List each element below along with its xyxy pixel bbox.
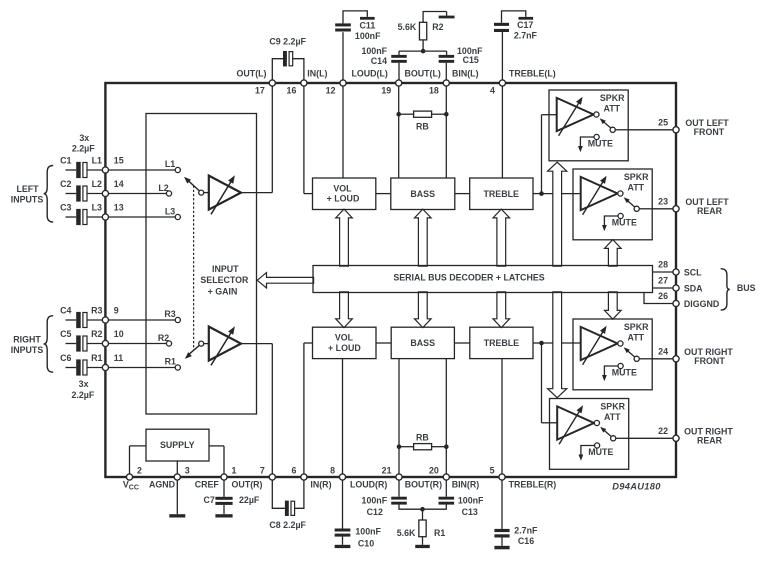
svg-text:25: 25 [658, 118, 668, 128]
svg-text:3x: 3x [79, 379, 89, 389]
svg-text:TREBLE: TREBLE [484, 189, 519, 199]
svg-text:BOUT(R): BOUT(R) [405, 479, 442, 489]
svg-text:ATT: ATT [604, 412, 621, 422]
svg-text:5.6K: 5.6K [398, 22, 417, 32]
svg-text:ATT: ATT [604, 103, 621, 113]
svg-text:MUTE: MUTE [612, 218, 637, 228]
svg-text:20: 20 [429, 465, 439, 475]
svg-text:RIGHT: RIGHT [13, 334, 41, 344]
svg-text:BIN(R): BIN(R) [452, 479, 480, 489]
svg-text:22: 22 [658, 426, 668, 436]
svg-text:17: 17 [255, 85, 265, 95]
svg-text:1: 1 [232, 465, 237, 475]
svg-text:R1: R1 [165, 356, 176, 366]
svg-text:2: 2 [137, 465, 142, 475]
svg-text:5.6K: 5.6K [397, 528, 416, 538]
svg-text:SDA: SDA [684, 283, 703, 293]
svg-text:2.7nF: 2.7nF [514, 526, 538, 536]
svg-text:C15: C15 [463, 55, 479, 65]
svg-text:IN(L): IN(L) [307, 68, 327, 78]
svg-text:C11: C11 [360, 20, 376, 30]
svg-text:R1: R1 [434, 528, 445, 538]
svg-text:BASS: BASS [410, 338, 435, 348]
svg-text:R2: R2 [158, 333, 169, 343]
svg-text:4: 4 [490, 85, 495, 95]
svg-text:IN(R): IN(R) [310, 479, 331, 489]
svg-text:R1: R1 [91, 353, 102, 363]
svg-text:L2: L2 [158, 183, 168, 193]
svg-text:13: 13 [114, 202, 124, 212]
svg-text:MUTE: MUTE [588, 447, 613, 457]
svg-text:L1: L1 [92, 155, 102, 165]
svg-text:SCL: SCL [684, 267, 702, 277]
svg-text:R2: R2 [432, 22, 443, 32]
svg-text:5: 5 [490, 465, 495, 475]
svg-text:BUS: BUS [737, 283, 756, 293]
svg-text:14: 14 [114, 179, 124, 189]
svg-text:27: 27 [658, 276, 668, 286]
svg-text:2.2µF: 2.2µF [72, 390, 95, 400]
svg-text:CREF: CREF [195, 479, 220, 489]
svg-text:15: 15 [114, 155, 124, 165]
svg-text:C9 2.2µF: C9 2.2µF [269, 37, 306, 47]
svg-text:18: 18 [429, 85, 439, 95]
svg-text:2.7nF: 2.7nF [514, 31, 538, 41]
svg-text:12: 12 [326, 85, 336, 95]
svg-text:3x: 3x [79, 133, 89, 143]
svg-text:C8 2.2µF: C8 2.2µF [269, 520, 306, 530]
svg-text:C3: C3 [60, 202, 71, 212]
svg-text:22µF: 22µF [239, 495, 260, 505]
svg-text:LEFT: LEFT [16, 184, 39, 194]
svg-text:100nF: 100nF [458, 496, 484, 506]
svg-text:ATT: ATT [628, 182, 645, 192]
svg-text:C12: C12 [367, 507, 383, 517]
svg-text:VOL: VOL [335, 333, 354, 343]
svg-text:D94AU180: D94AU180 [612, 481, 661, 491]
svg-text:SELECTOR: SELECTOR [200, 275, 249, 285]
svg-text:28: 28 [658, 260, 668, 270]
svg-text:100nF: 100nF [355, 31, 381, 41]
svg-text:SPKR: SPKR [624, 172, 649, 182]
svg-text:100nF: 100nF [362, 496, 388, 506]
svg-text:C13: C13 [462, 507, 478, 517]
svg-text:L3: L3 [92, 202, 102, 212]
svg-text:R3: R3 [91, 305, 102, 315]
svg-text:AGND: AGND [149, 479, 176, 489]
svg-text:LOUD(L): LOUD(L) [352, 68, 388, 78]
svg-text:DIGGND: DIGGND [684, 299, 720, 309]
svg-text:REAR: REAR [697, 206, 723, 216]
svg-text:TREBLE(L): TREBLE(L) [509, 68, 556, 78]
svg-text:C10: C10 [358, 538, 374, 548]
svg-text:23: 23 [658, 197, 668, 207]
svg-text:FRONT: FRONT [694, 356, 725, 366]
svg-text:SPKR: SPKR [624, 322, 649, 332]
svg-text:2.2µF: 2.2µF [72, 144, 95, 154]
svg-text:L1: L1 [165, 159, 175, 169]
svg-text:BOUT(L): BOUT(L) [405, 68, 441, 78]
svg-text:OUT(R): OUT(R) [232, 479, 263, 489]
svg-text:TREBLE(R): TREBLE(R) [509, 479, 557, 489]
svg-text:INPUTS: INPUTS [11, 345, 44, 355]
svg-text:C5: C5 [60, 329, 71, 339]
svg-text:L2: L2 [92, 179, 102, 189]
svg-text:11: 11 [114, 353, 123, 363]
svg-text:3: 3 [185, 465, 190, 475]
svg-text:C7: C7 [203, 495, 214, 505]
svg-text:SPKR: SPKR [600, 93, 625, 103]
svg-text:TREBLE: TREBLE [484, 338, 519, 348]
svg-text:OUT(L): OUT(L) [237, 68, 267, 78]
svg-text:C1: C1 [60, 155, 71, 165]
svg-text:ATT: ATT [628, 332, 645, 342]
svg-text:SUPPLY: SUPPLY [160, 440, 195, 450]
svg-text:C2: C2 [60, 179, 71, 189]
svg-text:C6: C6 [60, 353, 71, 363]
svg-text:+ GAIN: + GAIN [208, 286, 238, 296]
svg-text:C4: C4 [60, 305, 71, 315]
svg-text:VOL: VOL [333, 183, 352, 193]
svg-text:9: 9 [114, 305, 119, 315]
svg-text:6: 6 [291, 465, 296, 475]
svg-text:26: 26 [658, 291, 668, 301]
svg-text:REAR: REAR [697, 436, 723, 446]
svg-text:BASS: BASS [410, 189, 435, 199]
svg-text:INPUTS: INPUTS [11, 195, 44, 205]
svg-text:MUTE: MUTE [588, 139, 613, 149]
svg-text:R2: R2 [91, 329, 102, 339]
svg-text:10: 10 [114, 329, 124, 339]
svg-text:100nF: 100nF [361, 46, 387, 56]
svg-text:7: 7 [260, 465, 265, 475]
svg-text:24: 24 [658, 347, 668, 357]
svg-text:R3: R3 [164, 309, 175, 319]
svg-text:MUTE: MUTE [612, 368, 637, 378]
svg-text:16: 16 [287, 85, 297, 95]
svg-text:SPKR: SPKR [600, 401, 625, 411]
svg-text:BIN(L): BIN(L) [452, 68, 479, 78]
svg-text:INPUT: INPUT [212, 264, 239, 274]
svg-text:RB: RB [416, 121, 429, 131]
svg-text:100nF: 100nF [355, 526, 381, 536]
svg-text:C14: C14 [371, 56, 387, 66]
svg-text:L3: L3 [165, 207, 175, 217]
svg-text:C16: C16 [518, 536, 534, 546]
svg-text:SERIAL BUS DECODER + LATCHES: SERIAL BUS DECODER + LATCHES [393, 273, 544, 283]
svg-text:+ LOUD: + LOUD [327, 194, 360, 204]
svg-text:8: 8 [330, 465, 335, 475]
svg-text:RB: RB [416, 433, 429, 443]
svg-text:FRONT: FRONT [694, 127, 725, 137]
svg-text:C17: C17 [517, 20, 533, 30]
svg-text:21: 21 [382, 465, 392, 475]
svg-text:+ LOUD: + LOUD [328, 343, 361, 353]
svg-text:LOUD(R): LOUD(R) [350, 479, 387, 489]
svg-text:19: 19 [381, 85, 391, 95]
